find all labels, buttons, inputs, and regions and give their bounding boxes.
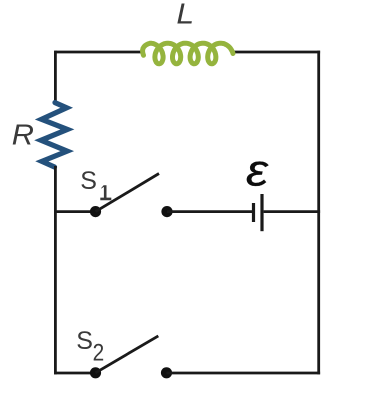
wire top-right segment — [233, 51, 321, 54]
switch S1 blade — [96, 174, 160, 212]
battery negative plate — [252, 203, 255, 222]
wire left lower segment — [54, 166, 57, 374]
resistor R — [41, 103, 67, 167]
label L — [176, 0, 194, 30]
label EMF script epsilon — [246, 146, 269, 196]
wire top-left segment — [55, 51, 142, 54]
wire middle-left segment — [54, 210, 96, 213]
battery positive plate — [260, 194, 263, 231]
label R — [12, 119, 34, 151]
wire bottom-left segment — [54, 372, 96, 375]
svg-text:S: S — [80, 167, 97, 195]
switch S1 contact node — [161, 206, 172, 217]
svg-text:ε: ε — [246, 146, 269, 196]
switch S2 blade — [96, 336, 159, 373]
wire left upper segment — [54, 51, 57, 103]
switch S1 pivot node — [90, 206, 101, 217]
svg-text:S: S — [76, 327, 93, 355]
label S2 subscript 2 — [93, 338, 105, 366]
switch S2 pivot node — [90, 367, 101, 378]
wire middle (S1 to battery) — [167, 210, 252, 213]
svg-text:L: L — [176, 0, 194, 30]
svg-text:R: R — [12, 119, 34, 151]
wire middle (battery to right) — [264, 210, 321, 213]
svg-text:2: 2 — [93, 338, 105, 366]
wire bottom-right segment — [167, 372, 321, 375]
wire right segment — [317, 51, 320, 375]
inductor L coil — [143, 43, 233, 64]
label S1 subscript 1 — [100, 185, 111, 200]
switch S2 contact node — [161, 367, 172, 378]
